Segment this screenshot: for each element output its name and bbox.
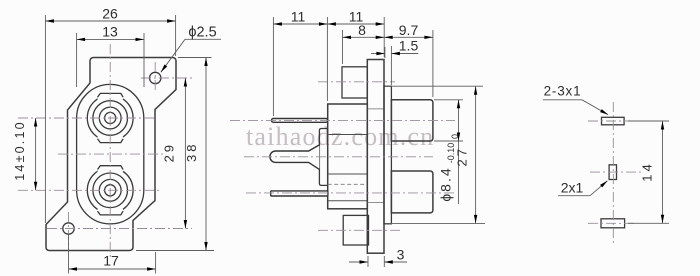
top box bbox=[342, 67, 367, 98]
mounting hole bottom-left bbox=[63, 223, 74, 234]
axis bottom box bbox=[318, 229, 400, 231]
centerline vertical bbox=[612, 102, 614, 246]
svg-text:11: 11 bbox=[291, 9, 306, 25]
centerline J1 bbox=[18, 117, 155, 119]
dim 11 left bbox=[273, 23, 327, 25]
svg-text:3: 3 bbox=[397, 247, 405, 263]
svg-text:29: 29 bbox=[162, 142, 177, 162]
svg-text:0: 0 bbox=[450, 134, 460, 139]
svg-text:8: 8 bbox=[358, 22, 366, 38]
dim 38 bbox=[205, 58, 207, 251]
svg-text:14±0.10: 14±0.10 bbox=[13, 120, 27, 181]
centerline hole bottom-left vertical bbox=[68, 212, 70, 252]
svg-text:9.7: 9.7 bbox=[399, 22, 419, 38]
step box bbox=[319, 129, 327, 186]
pad middle bbox=[609, 165, 616, 180]
dim phi8.4 bbox=[434, 99, 463, 101]
housing internal line 1 bbox=[328, 134, 368, 136]
axis top jack bbox=[230, 119, 455, 121]
pin 1 bbox=[272, 119, 328, 123]
dim 27 bbox=[385, 85, 483, 87]
plate outline bbox=[46, 58, 176, 251]
axis bottom jack bbox=[246, 192, 455, 194]
dim 13 bbox=[77, 38, 144, 40]
axis pin2 bbox=[244, 156, 433, 158]
svg-text:27: 27 bbox=[455, 146, 470, 166]
boss oval bbox=[77, 84, 144, 224]
svg-text:1.5: 1.5 bbox=[399, 38, 419, 54]
boss slab bbox=[384, 86, 391, 224]
svg-text:2-3x1: 2-3x1 bbox=[544, 84, 582, 99]
dim 17 bbox=[69, 268, 156, 270]
dim 14 bbox=[628, 120, 669, 122]
centerline hole bottom-left horizontal bbox=[47, 228, 192, 230]
svg-text:13: 13 bbox=[102, 24, 118, 40]
dim 26 bbox=[45, 20, 175, 22]
dim phi2.5 leader bbox=[185, 38, 221, 40]
bottom box bbox=[343, 215, 368, 245]
jack J1 circles bbox=[87, 95, 133, 141]
svg-text:26: 26 bbox=[102, 6, 118, 22]
centerline pad bottom bbox=[588, 222, 634, 224]
jack J2 circles bbox=[87, 167, 133, 213]
pin 2 bbox=[270, 145, 320, 170]
housing internal line mid bbox=[328, 173, 368, 175]
svg-text:14: 14 bbox=[640, 161, 655, 181]
plate internal line 2 bbox=[367, 202, 384, 204]
dim 11 right bbox=[327, 23, 384, 25]
dim 3 bbox=[349, 261, 368, 263]
housing hidden line bbox=[328, 183, 368, 185]
pad bottom bbox=[601, 219, 625, 228]
dim 9.7 bbox=[384, 36, 433, 38]
barrel top bbox=[391, 100, 433, 141]
plate internal line 1 bbox=[367, 108, 384, 110]
centerline J2 bbox=[18, 189, 162, 191]
dim 8 bbox=[343, 36, 385, 38]
jack J2 bottom tab bbox=[98, 209, 124, 215]
centerline middle bbox=[58, 153, 164, 155]
svg-text:2x1: 2x1 bbox=[561, 180, 584, 196]
dim 1.5 bbox=[371, 53, 385, 55]
centerline pad middle bbox=[590, 171, 643, 173]
jack J1 bottom tab bbox=[98, 137, 124, 143]
centerline vertical main bbox=[109, 44, 111, 260]
jack J1 top tab bbox=[98, 93, 124, 99]
centerline pad top bbox=[588, 120, 634, 122]
pin 3 bbox=[271, 191, 328, 196]
jack J2 top tab bbox=[98, 166, 124, 172]
barrel bottom bbox=[391, 171, 433, 213]
dim 29 bbox=[184, 78, 186, 229]
dim 14+-0.10 bbox=[35, 118, 37, 190]
svg-text:ϕ2.5: ϕ2.5 bbox=[188, 24, 216, 40]
svg-text:17: 17 bbox=[103, 253, 119, 269]
pad top bbox=[602, 117, 625, 125]
centerline hole top-right horizontal bbox=[141, 77, 192, 79]
svg-text:ϕ8.4: ϕ8.4 bbox=[438, 166, 454, 201]
svg-text:38: 38 bbox=[184, 142, 199, 162]
axis top box bbox=[318, 81, 395, 83]
mounting hole top-right bbox=[150, 72, 161, 83]
housing internal line 2 bbox=[328, 200, 368, 202]
centerline hole top-right vertical bbox=[154, 62, 156, 93]
svg-text:taihaodz.com.cn: taihaodz.com.cn bbox=[246, 122, 434, 151]
flange plate bbox=[367, 60, 384, 254]
housing body bbox=[328, 104, 368, 209]
